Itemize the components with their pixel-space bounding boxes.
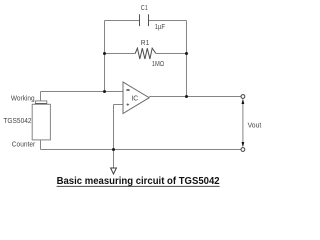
svg-text:Working: Working (11, 94, 35, 103)
ground symbol (111, 168, 117, 174)
svg-text:C1: C1 (141, 3, 148, 12)
svg-text:Basic measuring circuit of TGS: Basic measuring circuit of TGS5042 (57, 176, 220, 187)
wire: sensor top stem (40, 92, 42, 101)
wire: top feedback row (C1 row) right segment (149, 20, 187, 22)
wire: non-inverting input row (114, 104, 124, 106)
svg-text:Vout: Vout (248, 120, 263, 129)
junction on left vertical at inverting row (103, 90, 106, 93)
wire: R1 row left segment (105, 53, 136, 55)
capacitor C1 plates (140, 14, 149, 26)
junction on right vertical at output row (185, 95, 188, 98)
svg-text:1MΩ: 1MΩ (152, 59, 165, 68)
sensor TGS5042 body (32, 104, 50, 140)
svg-text:IC: IC (131, 93, 138, 102)
Vout measurement arrow line (242, 100, 244, 146)
op-amp plus sign (127, 103, 130, 106)
wire: ground stem (113, 105, 115, 169)
svg-text:TGS5042: TGS5042 (3, 116, 31, 125)
wire: sensor bottom stem (40, 140, 42, 150)
junction on left vertical at R1 row (103, 52, 106, 55)
op-amp U1 triangle (123, 82, 149, 114)
wire: top feedback row (C1 row) left segment (105, 20, 140, 22)
junction on right vertical at R1 row (185, 52, 188, 55)
wire: left feedback vertical (104, 21, 106, 92)
Vout arrowhead up (242, 99, 245, 104)
wire: right feedback vertical (186, 21, 188, 97)
wire: inverting input row (sensor top to op-amp) (41, 91, 124, 93)
svg-text:1µF: 1µF (155, 22, 166, 31)
wire: bottom rail (41, 149, 242, 151)
wire: output row (149, 96, 241, 98)
svg-text:R1: R1 (141, 38, 150, 47)
terminal: Vout bottom circle (241, 148, 245, 152)
svg-text:Counter: Counter (12, 140, 36, 149)
sensor TGS5042 top cap (35, 101, 47, 105)
junction on bottom rail at ground stem (112, 148, 115, 151)
resistor R1 zigzag (135, 48, 156, 59)
wire: R1 row right segment (156, 53, 187, 55)
op-amp minus sign (126, 89, 129, 91)
terminal: Vout top circle (241, 95, 245, 99)
Vout arrowhead down (242, 142, 245, 147)
caption: Basic measuring circuit of TGS5042 (57, 176, 220, 187)
